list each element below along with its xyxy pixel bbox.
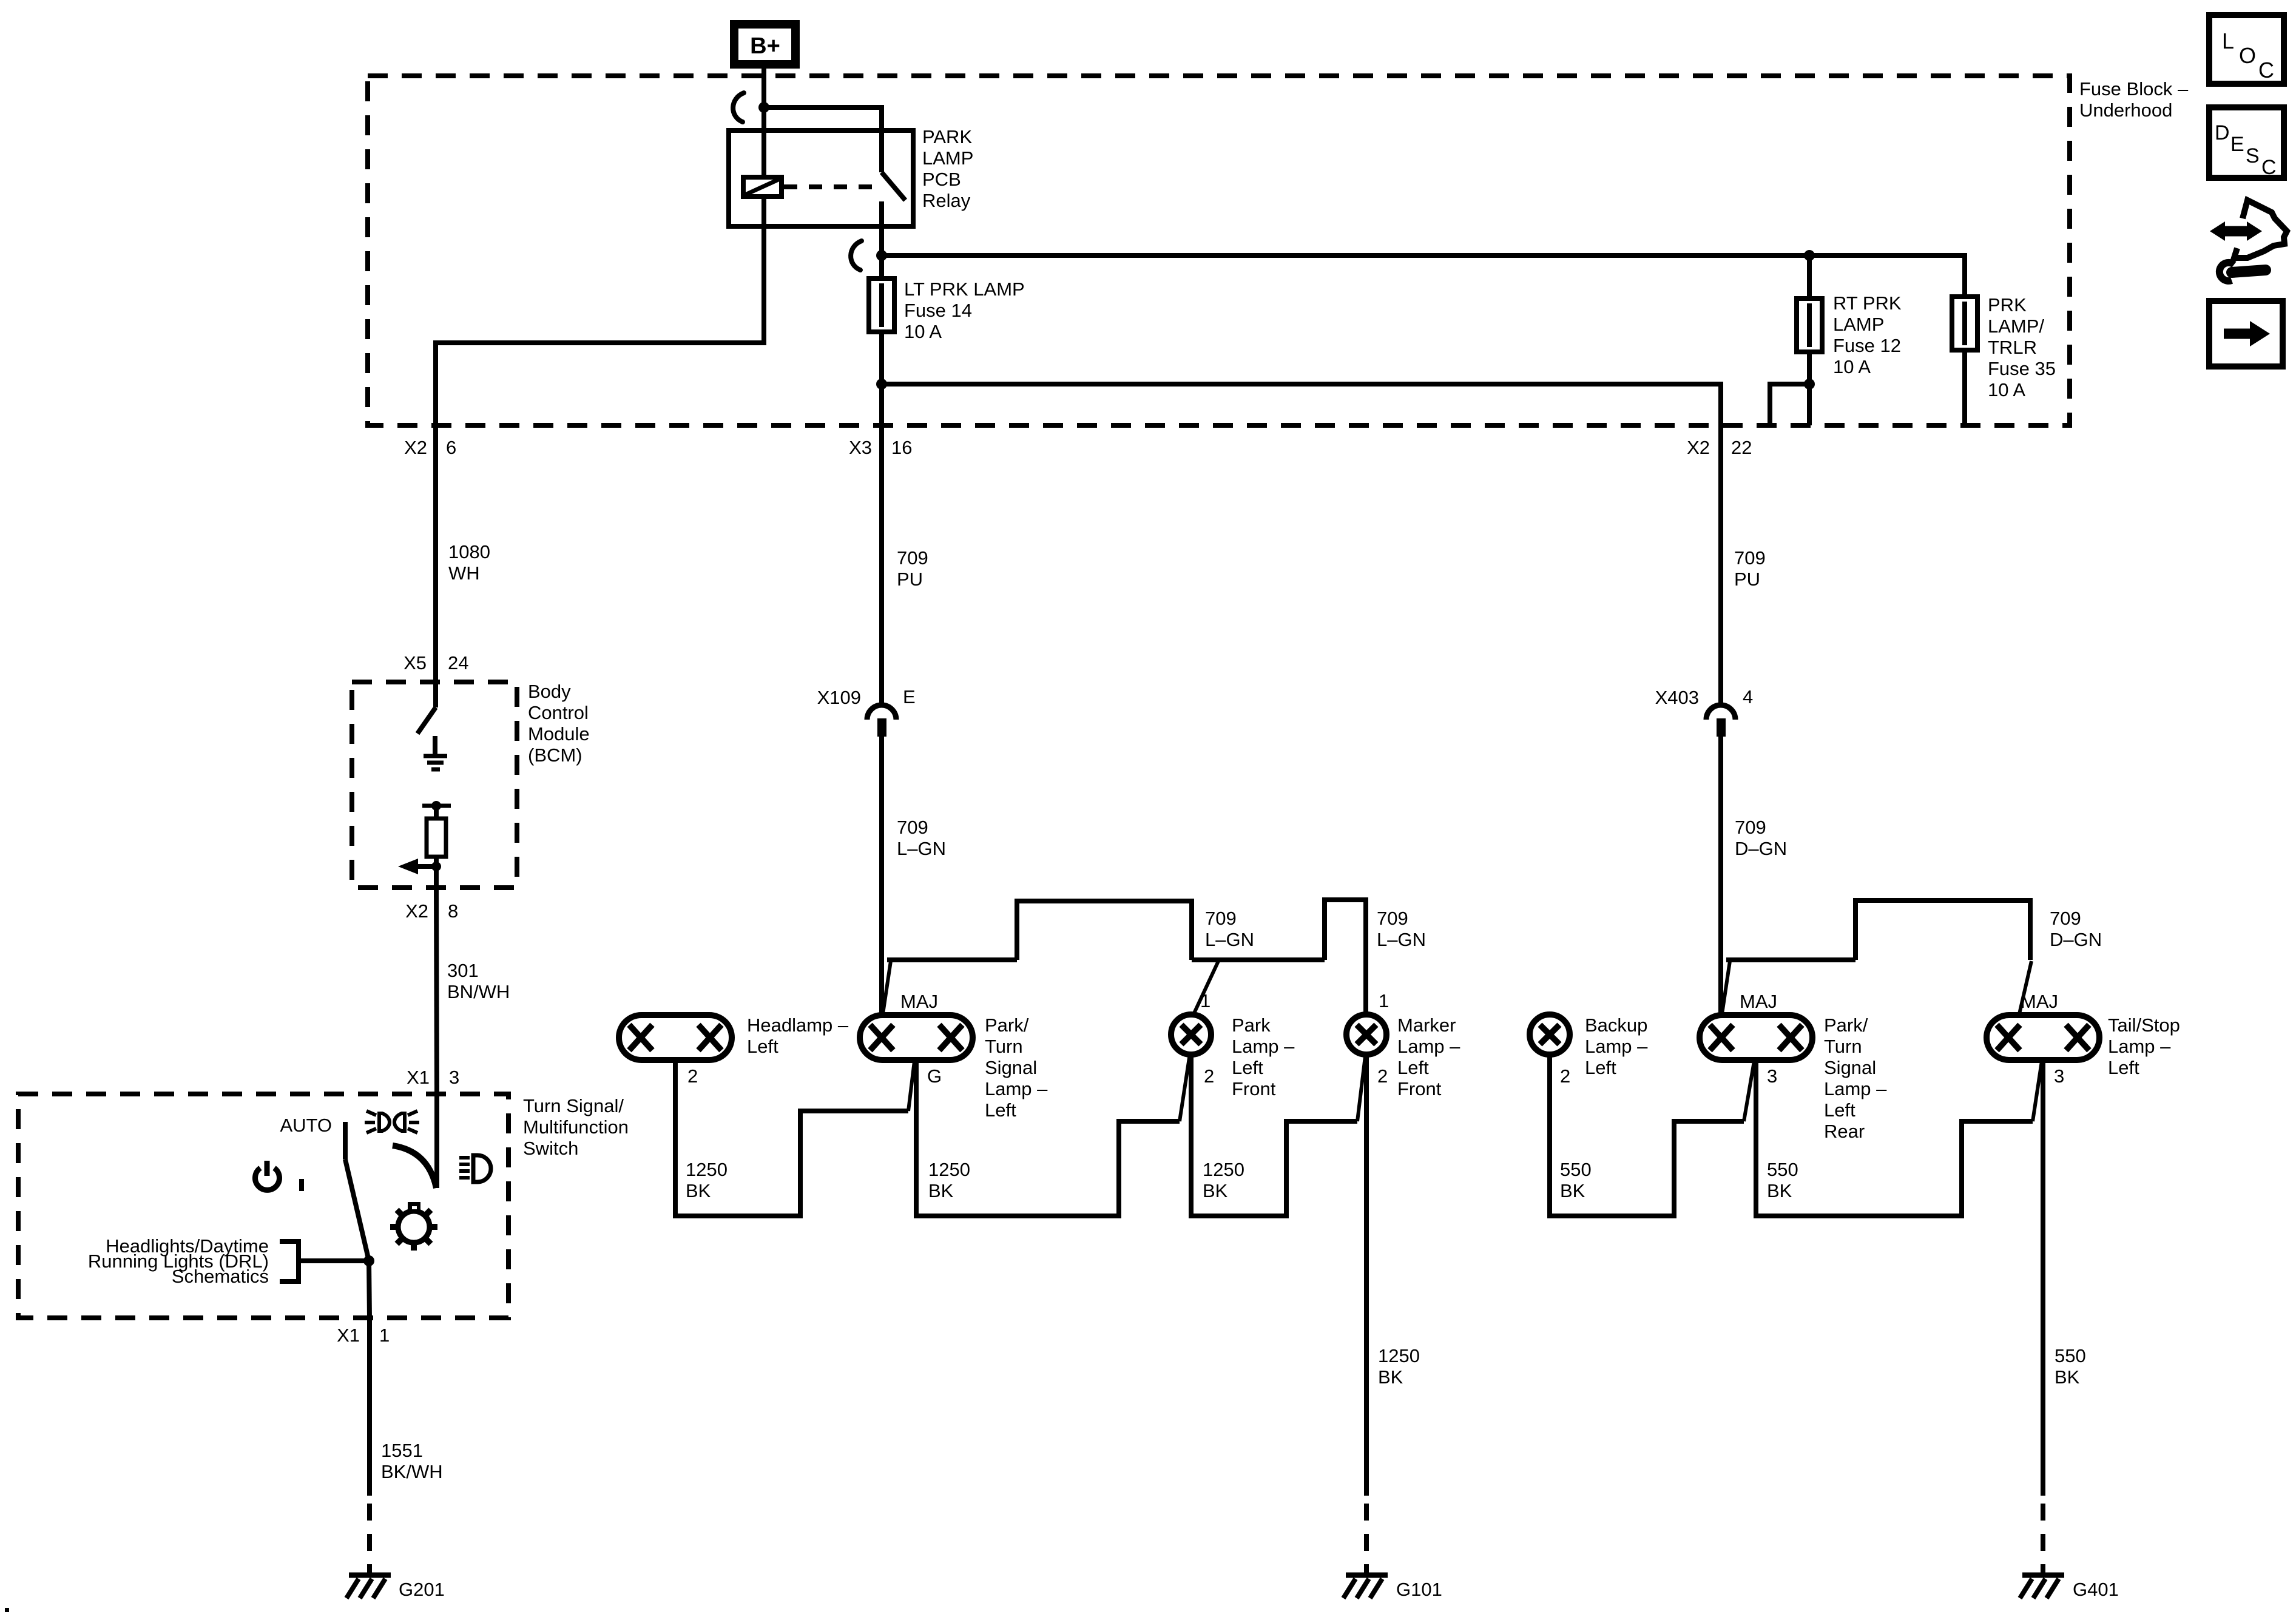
svg-text:Park/: Park/ xyxy=(1824,1014,1868,1036)
icon: LOC box xyxy=(2209,15,2284,84)
svg-text:1: 1 xyxy=(379,1325,390,1346)
svg-text:709: 709 xyxy=(897,547,928,569)
svg-text:Left: Left xyxy=(1585,1057,1616,1078)
svg-text:Backup: Backup xyxy=(1585,1014,1647,1036)
svg-text:X3: X3 xyxy=(849,437,872,458)
relay switch lower contact xyxy=(879,201,884,255)
svg-text:550: 550 xyxy=(1560,1159,1592,1180)
fuse block - underhood (dashed box) xyxy=(368,76,2070,425)
wire label 1250 BK (headlamp) xyxy=(686,1159,728,1201)
wire rail to marker jog xyxy=(1192,957,1325,962)
icon: off (power) position xyxy=(255,1161,302,1191)
svg-text:BK: BK xyxy=(686,1180,711,1201)
svg-text:Underhood: Underhood xyxy=(2079,100,2172,121)
wire switch to X1/1 xyxy=(369,1261,370,1318)
svg-text:Relay: Relay xyxy=(922,190,971,211)
fuse RT PRK LAMP Fuse 12 xyxy=(1797,299,1822,384)
svg-text:Turn Signal/: Turn Signal/ xyxy=(523,1095,624,1116)
svg-text:Lamp –: Lamp – xyxy=(1397,1036,1460,1057)
svg-text:Fuse Block –: Fuse Block – xyxy=(2079,78,2189,100)
svg-text:301: 301 xyxy=(447,960,479,981)
relay label xyxy=(922,126,973,211)
svg-text:Lamp –: Lamp – xyxy=(1585,1036,1648,1057)
svg-text:D–GN: D–GN xyxy=(1735,838,1787,859)
svg-text:1080: 1080 xyxy=(448,541,490,562)
svg-text:L: L xyxy=(2222,29,2234,53)
svg-text:X2: X2 xyxy=(1687,437,1710,458)
wire rear MAJ ground chain to tail xyxy=(1756,1059,2033,1216)
svg-text:BK: BK xyxy=(1378,1366,1403,1388)
BCM label xyxy=(528,681,590,766)
icon: park/tail bulb position xyxy=(390,1202,437,1251)
svg-text:BK/WH: BK/WH xyxy=(381,1461,443,1482)
svg-text:Fuse 14: Fuse 14 xyxy=(904,300,972,321)
svg-text:Signal: Signal xyxy=(1824,1057,1876,1078)
svg-text:MAJ: MAJ xyxy=(1740,991,1777,1012)
wire G ground chain to park lamp xyxy=(916,1059,1180,1216)
wire pigtail to park lamp pin 1 xyxy=(1193,961,1218,1016)
svg-text:Marker: Marker xyxy=(1397,1014,1456,1036)
park/turn signal lamp left label xyxy=(985,1014,1048,1121)
svg-text:1250: 1250 xyxy=(928,1159,970,1180)
wire label 301 BN/WH xyxy=(447,960,510,1002)
svg-text:G401: G401 xyxy=(2073,1579,2119,1600)
lamp: Park/Turn Signal Lamp - Left Rear (MAJ) xyxy=(1700,1015,1812,1060)
wire jog to park lamp xyxy=(1017,901,1192,960)
wire B+ to relay coil xyxy=(761,69,766,177)
svg-text:S: S xyxy=(2246,144,2260,167)
svg-text:B+: B+ xyxy=(750,33,780,59)
wire backup ground chain xyxy=(1550,1054,1744,1216)
svg-text:6: 6 xyxy=(446,437,456,458)
svg-text:C: C xyxy=(2261,156,2277,179)
svg-text:1551: 1551 xyxy=(381,1440,423,1461)
wire label 1250 BK (to G101) xyxy=(1378,1345,1420,1388)
svg-text:Schematics: Schematics xyxy=(172,1266,269,1287)
clip symbol at fuse feed junction xyxy=(851,241,862,270)
fuse LT PRK LAMP Fuse 14 xyxy=(869,255,894,384)
svg-text:Tail/Stop: Tail/Stop xyxy=(2108,1014,2180,1036)
wire 1551 BK/WH to G201 xyxy=(367,1318,372,1496)
wire marker ground to G101 xyxy=(1364,1055,1369,1496)
svg-text:Signal: Signal xyxy=(985,1057,1037,1078)
svg-text:709: 709 xyxy=(1734,547,1766,569)
connector X403 pin 4 xyxy=(1655,686,1754,737)
switch blade from AUTO xyxy=(345,1122,369,1261)
svg-text:MAJ: MAJ xyxy=(900,991,938,1012)
svg-text:1250: 1250 xyxy=(686,1159,728,1180)
dashed lead to G201 xyxy=(367,1504,372,1575)
svg-text:D–GN: D–GN xyxy=(2050,929,2102,950)
switch rotation arc xyxy=(393,1146,436,1188)
ground G101 xyxy=(1343,1575,1442,1600)
wire label 1080 WH xyxy=(448,541,490,584)
svg-text:16: 16 xyxy=(891,437,912,458)
svg-text:LAMP: LAMP xyxy=(922,147,973,169)
fuse PRK LAMP/TRLR Fuse 35 xyxy=(1952,297,1977,425)
svg-text:8: 8 xyxy=(448,900,458,922)
BCM internal resistor xyxy=(422,801,451,888)
svg-text:Module: Module xyxy=(528,723,590,744)
DRL bracket xyxy=(280,1241,299,1281)
pigtail chain to marker lamp pin 2 xyxy=(1357,1056,1365,1121)
svg-text:550: 550 xyxy=(1767,1159,1798,1180)
svg-text:2: 2 xyxy=(1377,1065,1388,1087)
svg-text:Park: Park xyxy=(1232,1014,1271,1036)
svg-text:WH: WH xyxy=(448,562,480,584)
svg-text:BK: BK xyxy=(928,1180,954,1201)
pigtail chain to rear MAJ pin 3 xyxy=(1744,1061,1754,1121)
svg-text:3: 3 xyxy=(449,1067,459,1088)
clip symbol at B+ junction xyxy=(733,93,744,122)
svg-text:D: D xyxy=(2215,121,2230,144)
wire label 550 BK (rear MAJ) xyxy=(1767,1159,1798,1201)
turn signal / multifunction switch (dashed box) xyxy=(18,1094,508,1318)
wire junction to relay switch xyxy=(764,107,882,172)
svg-text:24: 24 xyxy=(448,652,468,673)
wire X3/16 down through border xyxy=(879,384,884,425)
connector pin labels X5/24 xyxy=(403,652,468,673)
wire label 709 D-GN (tail) xyxy=(2050,908,2102,950)
wire label 709 PU (right) xyxy=(1734,547,1766,590)
wire headlamp ground chain xyxy=(675,1059,908,1216)
svg-text:Fuse 35: Fuse 35 xyxy=(1988,358,2056,379)
wire jog to tail/stop lamp xyxy=(1855,900,2030,960)
park lamp left front label xyxy=(1232,1014,1295,1099)
wire 709 L-GN branch rail xyxy=(883,960,1017,1014)
pigtail chain to tail lamp pin 3 xyxy=(2033,1061,2042,1121)
connector pin labels X1/3 xyxy=(407,1067,459,1088)
wire label 1551 BK/WH xyxy=(381,1440,443,1482)
headlamp label xyxy=(747,1014,849,1057)
connector pin labels X2/6 X3/16 X2/22 xyxy=(404,437,1752,458)
connector pin labels X2/8 xyxy=(405,900,458,922)
svg-text:Rear: Rear xyxy=(1824,1121,1865,1142)
svg-text:Body: Body xyxy=(528,681,571,702)
node: fuse feed junction xyxy=(876,250,887,261)
svg-text:X403: X403 xyxy=(1655,687,1699,708)
relay switch blade xyxy=(882,172,905,200)
svg-text:Left: Left xyxy=(747,1036,778,1057)
svg-text:1: 1 xyxy=(1379,990,1389,1011)
svg-text:G: G xyxy=(927,1065,942,1087)
svg-text:2: 2 xyxy=(1560,1065,1570,1087)
svg-text:X2: X2 xyxy=(404,437,427,458)
svg-text:709: 709 xyxy=(1205,908,1237,929)
svg-text:10 A: 10 A xyxy=(904,321,942,342)
lamp: Marker Lamp - Left Front xyxy=(1346,1014,1386,1055)
icon: headlamp position xyxy=(459,1155,491,1182)
svg-text:X5: X5 xyxy=(403,652,427,673)
dashed lead to G101 xyxy=(1364,1504,1369,1575)
svg-text:Lamp –: Lamp – xyxy=(1232,1036,1295,1057)
relay coil-switch dashed link xyxy=(784,184,877,189)
wire 301 BN/WH BCM to switch X1/3 xyxy=(436,888,437,1094)
svg-text:709: 709 xyxy=(897,817,928,838)
svg-text:C: C xyxy=(2258,58,2274,83)
svg-text:Turn: Turn xyxy=(985,1036,1023,1057)
wire coil bottom to X2/6 xyxy=(436,197,764,425)
svg-text:LT PRK LAMP: LT PRK LAMP xyxy=(904,279,1025,300)
lamp: Headlamp - Left xyxy=(619,1015,732,1060)
svg-text:PARK: PARK xyxy=(922,126,972,147)
svg-text:Fuse 12: Fuse 12 xyxy=(1833,335,1901,356)
icon: next-page arrow box xyxy=(2209,301,2283,366)
wire 709 D-GN X403 to rear lamp xyxy=(1718,737,1723,1015)
svg-text:Left: Left xyxy=(985,1099,1016,1121)
wire 709 D-GN branch rail xyxy=(1722,960,1855,1014)
svg-text:PCB: PCB xyxy=(922,169,961,190)
wire label 709 D-GN xyxy=(1735,817,1787,859)
node: B+ branch junction xyxy=(758,102,769,113)
svg-text:G101: G101 xyxy=(1396,1579,1442,1600)
wire LT fuse to X2/22 xyxy=(882,384,1721,425)
svg-text:Lamp –: Lamp – xyxy=(1824,1078,1887,1099)
wire label 709 L-GN xyxy=(897,817,946,859)
svg-text:BN/WH: BN/WH xyxy=(447,981,510,1002)
wire label 1250 BK (park) xyxy=(1203,1159,1244,1201)
LT PRK LAMP fuse label xyxy=(904,279,1025,342)
svg-text:709: 709 xyxy=(2050,908,2081,929)
svg-text:Left: Left xyxy=(1397,1057,1429,1078)
ground G201 xyxy=(346,1575,445,1600)
svg-text:BK: BK xyxy=(1767,1180,1792,1201)
lamp: Backup Lamp - Left xyxy=(1530,1014,1570,1055)
node: switch output junction xyxy=(363,1255,374,1266)
node: RT fuse lower junction xyxy=(1804,379,1815,390)
wire 709 L-GN X109 to lamp xyxy=(879,737,884,1015)
wire park lamp ground chain to marker xyxy=(1191,1053,1357,1216)
svg-text:Control: Control xyxy=(528,702,589,723)
svg-text:RT PRK: RT PRK xyxy=(1833,292,1902,314)
wire 709 PU X3/16 to X109 xyxy=(879,425,884,706)
battery B+ symbol xyxy=(734,24,795,64)
svg-text:Park/: Park/ xyxy=(985,1014,1029,1036)
svg-text:Front: Front xyxy=(1232,1078,1276,1099)
svg-text:10 A: 10 A xyxy=(1988,379,2025,400)
svg-text:L–GN: L–GN xyxy=(1205,929,1254,950)
svg-text:X1: X1 xyxy=(407,1067,430,1088)
dashed lead to G401 xyxy=(2041,1504,2045,1575)
icon: park lamps position xyxy=(365,1111,419,1133)
wire jog to marker lamp xyxy=(1325,900,1366,1014)
svg-text:BK: BK xyxy=(1203,1180,1228,1201)
svg-text:Multifunction: Multifunction xyxy=(523,1116,629,1138)
lamp: Park Lamp - Left Front xyxy=(1171,1014,1211,1055)
wire RT fuse stubs to connector row xyxy=(1770,384,1809,425)
svg-text:(BCM): (BCM) xyxy=(528,744,582,766)
page period mark xyxy=(5,1608,9,1612)
connector pin labels X1/1 xyxy=(337,1325,390,1346)
relay PARK LAMP PCB Relay box xyxy=(729,130,913,226)
DRL schematics reference label xyxy=(88,1235,269,1287)
marker lamp left front label xyxy=(1397,1014,1460,1099)
svg-text:PRK: PRK xyxy=(1988,294,2027,316)
svg-text:1250: 1250 xyxy=(1378,1345,1420,1366)
svg-text:L–GN: L–GN xyxy=(1377,929,1426,950)
svg-text:TRLR: TRLR xyxy=(1988,337,2037,358)
wire DRL tap to switch output xyxy=(299,1258,369,1263)
svg-text:Lamp –: Lamp – xyxy=(2108,1036,2171,1057)
PRK LAMP/TRLR fuse label xyxy=(1988,294,2056,400)
svg-text:LAMP: LAMP xyxy=(1833,314,1884,335)
svg-text:Lamp –: Lamp – xyxy=(985,1078,1048,1099)
wire 709 PU X2/22 to X403 xyxy=(1718,425,1723,706)
ground G401 xyxy=(2020,1575,2119,1600)
svg-text:2: 2 xyxy=(1204,1065,1214,1087)
svg-text:4: 4 xyxy=(1743,686,1753,707)
svg-text:E: E xyxy=(903,686,916,707)
svg-text:PU: PU xyxy=(897,569,923,590)
icon: DESC box xyxy=(2209,107,2284,179)
node: LT fuse output junction xyxy=(876,379,887,390)
svg-text:L–GN: L–GN xyxy=(897,838,946,859)
svg-text:Left: Left xyxy=(1824,1099,1855,1121)
svg-text:O: O xyxy=(2239,43,2256,68)
svg-text:Turn: Turn xyxy=(1824,1036,1862,1057)
wire 1080 WH X2/6 to BCM X5/24 xyxy=(433,425,438,682)
svg-text:MAJ: MAJ xyxy=(2021,991,2058,1012)
wire X1/3 into switch wiper xyxy=(434,1094,439,1188)
relay coil xyxy=(743,177,782,197)
BCM internal switch xyxy=(417,682,436,734)
svg-text:1250: 1250 xyxy=(1203,1159,1244,1180)
svg-text:Headlamp –: Headlamp – xyxy=(747,1014,849,1036)
lamp: Park/Turn Signal Lamp - Left (MAJ) xyxy=(860,1015,973,1060)
svg-text:22: 22 xyxy=(1731,437,1752,458)
svg-text:X2: X2 xyxy=(405,900,428,922)
svg-text:PU: PU xyxy=(1734,569,1760,590)
wire label 709 L-GN (marker) xyxy=(1377,908,1426,950)
node: RT fuse tap xyxy=(1804,250,1815,261)
svg-text:LAMP/: LAMP/ xyxy=(1988,316,2044,337)
tail/stop lamp label xyxy=(2108,1014,2180,1078)
wire label 709 PU xyxy=(897,547,928,590)
wire label 550 BK (backup) xyxy=(1560,1159,1592,1201)
svg-text:AUTO: AUTO xyxy=(280,1115,332,1136)
svg-text:2: 2 xyxy=(687,1065,698,1087)
svg-text:3: 3 xyxy=(2054,1065,2064,1087)
wire tap down to RT fuse xyxy=(1807,255,1812,299)
fuse block label xyxy=(2079,78,2189,121)
svg-text:BK: BK xyxy=(1560,1180,1585,1201)
connector X109 pin E xyxy=(817,686,916,737)
RT PRK LAMP fuse label xyxy=(1833,292,1902,377)
svg-text:10 A: 10 A xyxy=(1833,356,1871,377)
body control module BCM (dashed box) xyxy=(352,682,517,888)
pigtail chain to park lamp pin 2 xyxy=(1180,1054,1190,1121)
switch label xyxy=(523,1095,629,1159)
svg-text:G201: G201 xyxy=(399,1579,445,1600)
svg-text:X1: X1 xyxy=(337,1325,360,1346)
wire label 550 BK (to G401) xyxy=(2055,1345,2086,1388)
svg-text:709: 709 xyxy=(1735,817,1766,838)
svg-text:Front: Front xyxy=(1397,1078,1442,1099)
wire label 1250 BK (G) xyxy=(928,1159,970,1201)
svg-text:X109: X109 xyxy=(817,687,861,708)
svg-text:1: 1 xyxy=(1200,990,1210,1011)
svg-text:Left: Left xyxy=(1232,1057,1263,1078)
pigtail to tail/stop lamp xyxy=(2019,961,2031,1014)
BCM output arrow xyxy=(398,859,441,874)
svg-text:Left: Left xyxy=(2108,1057,2139,1078)
svg-text:709: 709 xyxy=(1377,908,1408,929)
pigtail headlamp chain to G xyxy=(908,1061,914,1111)
BCM internal ground xyxy=(424,736,447,769)
backup lamp label xyxy=(1585,1014,1648,1078)
wire feed rail to PRK LAMP/TRLR fuse xyxy=(882,255,1965,297)
icon: service tool (car outline, arrows, wrench) xyxy=(2210,200,2287,281)
svg-text:E: E xyxy=(2230,133,2244,156)
park/turn signal lamp left rear label xyxy=(1824,1014,1887,1142)
svg-text:Switch: Switch xyxy=(523,1138,578,1159)
lamp: Tail/Stop Lamp - Left (MAJ) xyxy=(1987,1015,2099,1060)
wire tail ground to G401 xyxy=(2041,1060,2045,1496)
wire label 709 L-GN (park) xyxy=(1205,908,1254,950)
svg-text:BK: BK xyxy=(2055,1366,2080,1388)
svg-text:550: 550 xyxy=(2055,1345,2086,1366)
svg-text:3: 3 xyxy=(1767,1065,1777,1087)
